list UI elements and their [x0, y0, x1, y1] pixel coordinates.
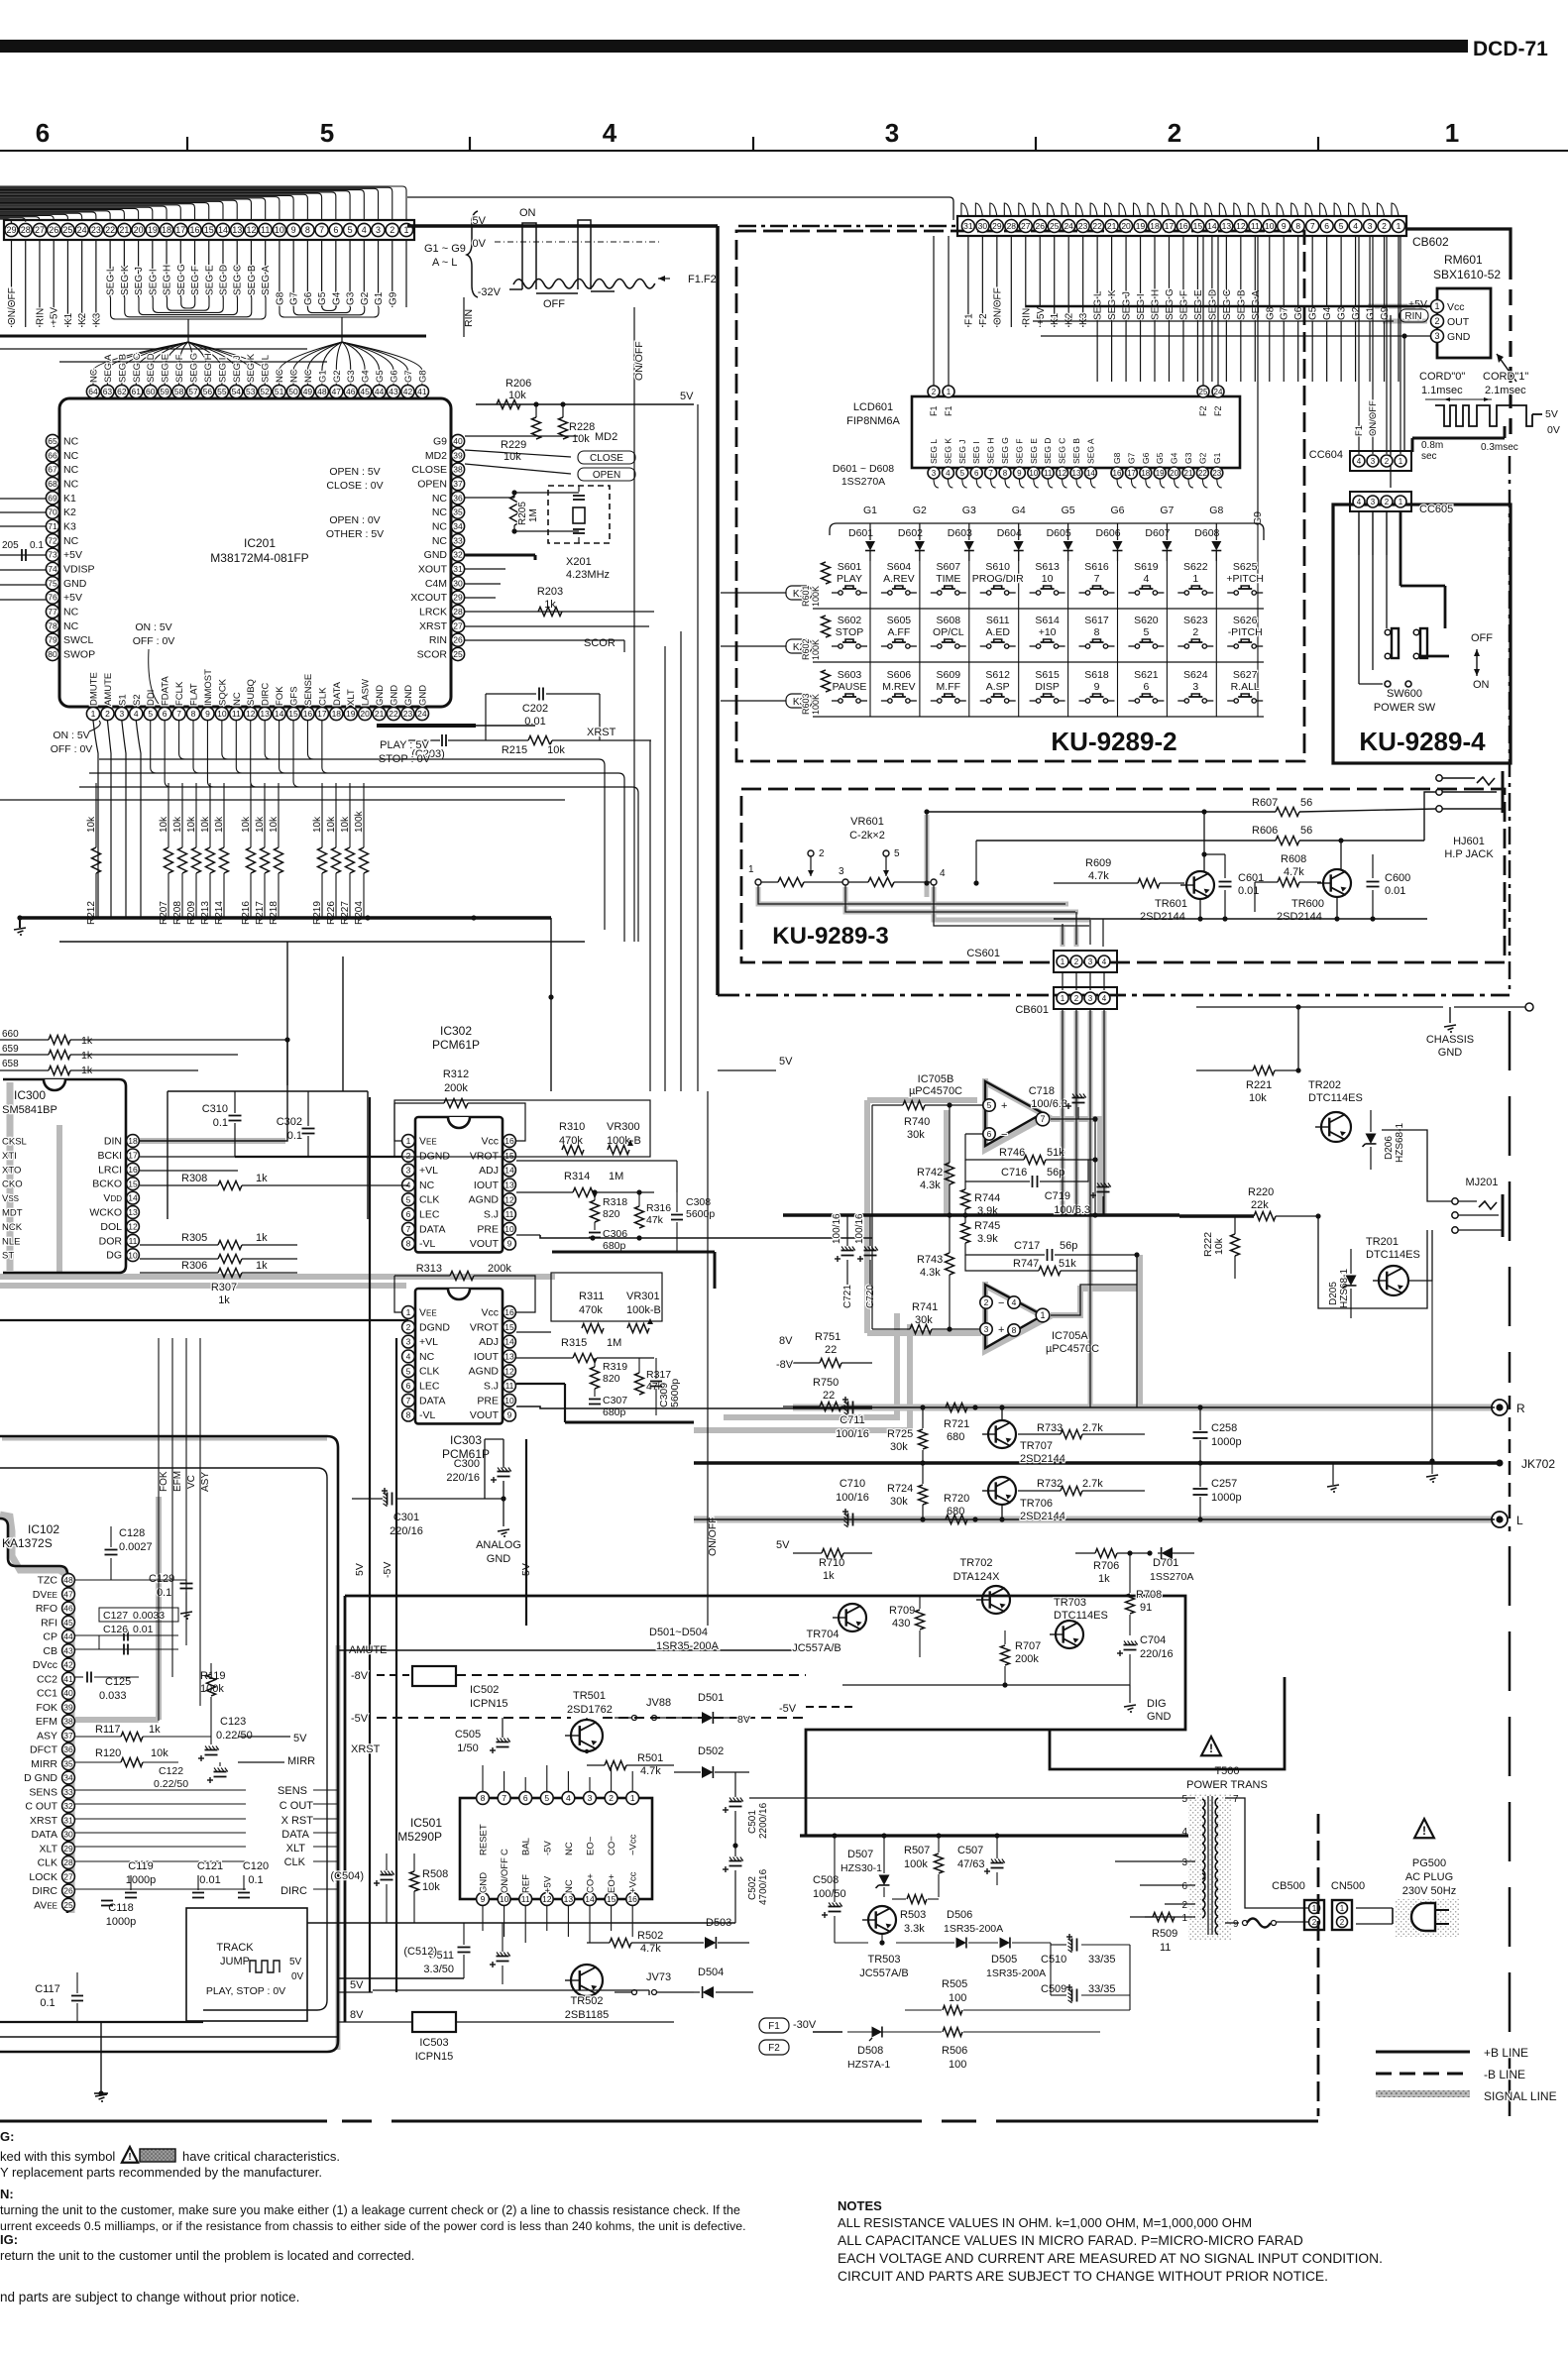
svg-text:12: 12 [504, 1366, 514, 1376]
svg-text:DIN: DIN [104, 1136, 122, 1148]
svg-text:4: 4 [940, 868, 946, 879]
KU-9289-4 board name [1359, 727, 1486, 756]
svg-text:G1: G1 [374, 291, 385, 305]
svg-text:47/63: 47/63 [957, 1858, 985, 1870]
svg-text:TR201: TR201 [1366, 1236, 1399, 1248]
svg-text:1: 1 [748, 864, 754, 875]
svg-text:5600p: 5600p [686, 1208, 715, 1220]
svg-text:SEG I: SEG I [971, 441, 981, 464]
svg-text:JV73: JV73 [646, 1971, 671, 1983]
svg-text:NC: NC [63, 535, 79, 547]
jumper JV88 [615, 1697, 694, 1721]
net RIN vertical [463, 297, 475, 337]
svg-text:48: 48 [317, 387, 327, 396]
jack JK702 R [1492, 1400, 1525, 1415]
svg-text:R751: R751 [815, 1331, 840, 1343]
svg-text:SEG B: SEG B [247, 265, 258, 295]
svg-text:R313: R313 [416, 1263, 442, 1275]
svg-text:1k: 1k [149, 1724, 161, 1736]
svg-text:5V: 5V [350, 1979, 364, 1991]
svg-text:C302: C302 [277, 1116, 302, 1128]
KU-9289-2 board name [1051, 727, 1176, 756]
svg-text:10k: 10k [1213, 1237, 1225, 1255]
svg-text:1k: 1k [218, 1294, 230, 1306]
svg-text:R212: R212 [86, 901, 97, 925]
wire ON/OFF mid [707, 1091, 719, 1626]
capacitor C504 [330, 1854, 393, 1923]
svg-text:R316: R316 [646, 1202, 671, 1214]
jack JK702 label [1497, 1457, 1556, 1471]
matrix top frame [830, 523, 1264, 540]
svg-text:SBX1610-52: SBX1610-52 [1433, 268, 1501, 281]
svg-text:65: 65 [48, 436, 57, 446]
svg-text:2: 2 [406, 1151, 411, 1161]
svg-text:PAUSE: PAUSE [833, 681, 867, 693]
transistor TR503 [859, 1906, 909, 1979]
svg-text:MDT: MDT [2, 1208, 23, 1219]
net -5V label [351, 1713, 806, 1725]
svg-text:R740: R740 [904, 1116, 930, 1128]
net F1 tag [759, 2018, 789, 2033]
svg-text:41: 41 [417, 387, 427, 396]
svg-text:47: 47 [332, 387, 342, 396]
svg-text:R217: R217 [255, 901, 266, 925]
svg-text:KU-9289-4: KU-9289-4 [1359, 727, 1486, 756]
svg-text:15: 15 [1193, 221, 1203, 231]
KU-9289-2 top dash-dot border [738, 225, 959, 228]
svg-text:VOUT: VOUT [470, 1238, 500, 1250]
resistor R507 [904, 1836, 944, 1897]
svg-text:XLT: XLT [346, 689, 357, 706]
transistor TR702 [953, 1557, 1010, 1614]
svg-text:3.3/50: 3.3/50 [423, 1964, 454, 1975]
svg-text:5: 5 [406, 1366, 411, 1376]
svg-text:!: ! [128, 2152, 131, 2163]
svg-text:38: 38 [453, 465, 463, 475]
svg-text:+5V: +5V [1408, 298, 1427, 310]
svg-text:SEG C: SEG C [233, 265, 244, 295]
svg-text:3: 3 [1368, 221, 1373, 231]
svg-text:G3: G3 [346, 370, 357, 383]
ground JK702 [1327, 1463, 1339, 1493]
svg-text:2: 2 [1181, 1900, 1187, 1911]
svg-text:G1 ~ G9: G1 ~ G9 [424, 243, 466, 255]
svg-text:NC: NC [419, 1180, 435, 1191]
svg-text:D507: D507 [847, 1849, 873, 1860]
svg-text:IOUT: IOUT [474, 1180, 500, 1191]
svg-text:18: 18 [332, 709, 342, 719]
svg-text:47k: 47k [646, 1214, 664, 1226]
svg-text:G3: G3 [1183, 452, 1193, 464]
svg-text:ked with this symbol: ked with this symbol [0, 2149, 115, 2164]
svg-text:13: 13 [1072, 469, 1081, 478]
svg-text:42: 42 [403, 387, 413, 396]
svg-text:6: 6 [163, 709, 168, 719]
DAC IC302 PCM61P [402, 1024, 516, 1252]
svg-text:DIRC: DIRC [280, 1885, 307, 1897]
resistor R751 [783, 1331, 872, 1368]
svg-text:1k: 1k [256, 1232, 268, 1244]
svg-text:54: 54 [232, 387, 242, 396]
svg-text:ON/OFF: ON/OFF [707, 1517, 719, 1556]
svg-text:69: 69 [48, 493, 57, 503]
jack JK702 L [1492, 1512, 1523, 1527]
svg-text:8V: 8V [737, 1714, 750, 1726]
capacitor C119 [125, 1860, 156, 1898]
svg-text:FIP8NM6A: FIP8NM6A [846, 415, 900, 427]
svg-text:220/16: 220/16 [446, 1472, 480, 1484]
svg-text:MD2: MD2 [595, 431, 617, 443]
signal highlight IC300 [0, 1082, 406, 1286]
wire power mid horizontals [307, 1923, 735, 1978]
svg-text:ICPN15: ICPN15 [470, 1698, 508, 1710]
svg-text:4: 4 [406, 1351, 411, 1361]
svg-text:+10: +10 [1039, 626, 1057, 638]
resistor R659 [0, 1044, 238, 1062]
resistor R119 [200, 1663, 225, 1715]
svg-text:12: 12 [246, 225, 256, 235]
svg-text:+PITCH: +PITCH [1226, 573, 1264, 585]
svg-text:R315: R315 [561, 1337, 587, 1349]
svg-text:S601: S601 [838, 561, 862, 573]
svg-text:DGND: DGND [419, 1150, 450, 1162]
resistor R315 [516, 1337, 654, 1363]
svg-text:D502: D502 [698, 1745, 724, 1757]
right border dash-dot vertical [1509, 456, 1512, 2116]
svg-text:1: 1 [1040, 1310, 1045, 1320]
svg-text:G4: G4 [331, 291, 342, 305]
svg-text:G:: G: [0, 2129, 14, 2144]
svg-text:LCD601: LCD601 [853, 401, 893, 413]
svg-text:XOUT: XOUT [418, 563, 448, 575]
svg-text:VR300: VR300 [607, 1121, 640, 1133]
svg-text:16: 16 [504, 1307, 514, 1317]
svg-text:15: 15 [504, 1322, 514, 1332]
svg-text:FOK: FOK [36, 1702, 57, 1714]
svg-text:37: 37 [63, 1731, 73, 1741]
svg-text:23: 23 [91, 225, 101, 235]
svg-text:1SS270A: 1SS270A [1150, 1571, 1193, 1583]
svg-text:R117: R117 [95, 1724, 120, 1736]
svg-text:1000p: 1000p [106, 1916, 137, 1928]
svg-text:NC: NC [63, 478, 79, 490]
svg-text:74: 74 [48, 564, 57, 574]
svg-text:17: 17 [128, 1150, 138, 1160]
svg-text:C128: C128 [119, 1527, 145, 1539]
capacitor C308 [671, 1192, 715, 1251]
capacitor C704 [1117, 1634, 1174, 1685]
svg-text:OPEN: OPEN [417, 478, 447, 490]
svg-text:R310: R310 [559, 1121, 585, 1133]
svg-text:SEG F: SEG F [174, 354, 185, 383]
svg-text:R745: R745 [974, 1220, 1000, 1232]
svg-text:CLK: CLK [317, 687, 328, 706]
resistor R724 [887, 1463, 928, 1522]
svg-text:33/35: 33/35 [1088, 1983, 1116, 1995]
capacitor C202 [486, 688, 600, 741]
svg-text:79: 79 [48, 635, 57, 645]
IC201 top pins 64-41 [86, 353, 428, 398]
svg-text:10k: 10k [572, 433, 590, 445]
ground CHASSIS GND [1426, 1007, 1474, 1059]
svg-text:PLAY, STOP : 0V: PLAY, STOP : 0V [206, 1985, 285, 1997]
svg-text:4.7k: 4.7k [640, 1765, 661, 1777]
svg-text:32: 32 [453, 550, 463, 560]
transistor TR202 [1308, 1079, 1363, 1142]
svg-text:NC: NC [63, 450, 79, 462]
svg-text:N:: N: [0, 2187, 14, 2201]
svg-text:8: 8 [305, 225, 310, 235]
svg-text:2: 2 [609, 1793, 614, 1803]
capacitor C121 [192, 1860, 223, 1898]
svg-text:D205: D205 [1328, 1282, 1339, 1305]
svg-text:AGND: AGND [469, 1194, 500, 1206]
capacitor C125 [75, 1672, 139, 1703]
wire TR collectors bus [1054, 918, 1427, 920]
wire servo inner frame [0, 1468, 327, 2010]
svg-text:SEG J: SEG J [134, 267, 145, 295]
net 5V bottom label [338, 1979, 373, 1992]
svg-text:34: 34 [453, 521, 463, 531]
op-amp ... IC201 body [59, 398, 451, 707]
capacitor C601 [1201, 851, 1264, 921]
svg-text:SUBQ: SUBQ [246, 679, 257, 706]
wire mute bus [842, 1682, 1130, 1687]
svg-text:+B LINE: +B LINE [1484, 2046, 1528, 2060]
svg-text:5: 5 [320, 118, 334, 148]
svg-text:6: 6 [974, 469, 979, 478]
DAC IC303 PCM61P [402, 1289, 516, 1461]
diode D506 [896, 1909, 1003, 1949]
svg-text:SEG E: SEG E [161, 354, 171, 383]
capacitor C301 [352, 1488, 506, 1537]
CB201 pin fan-out wires and net labels [7, 240, 406, 327]
svg-text:9: 9 [1282, 221, 1287, 231]
svg-text:4: 4 [134, 709, 139, 719]
svg-text:S612: S612 [985, 669, 1010, 681]
svg-text:C-2k×2: C-2k×2 [849, 830, 885, 842]
svg-text:C119: C119 [128, 1860, 153, 1872]
svg-text:SEG L: SEG L [929, 439, 939, 464]
capacitor C716 [965, 1160, 1088, 1187]
svg-text:KA1372S: KA1372S [2, 1536, 53, 1550]
svg-text:5V: 5V [1545, 408, 1558, 420]
net SCOR [465, 637, 624, 652]
svg-text:NC: NC [63, 464, 79, 476]
svg-text:R708: R708 [1136, 1589, 1162, 1601]
wire R channel line [793, 1406, 1495, 1408]
svg-text:R319: R319 [603, 1361, 627, 1373]
svg-text:33: 33 [63, 1787, 73, 1797]
svg-text:RIN: RIN [429, 634, 447, 646]
svg-text:2.1msec: 2.1msec [1485, 385, 1526, 396]
svg-text:VSS: VSS [2, 1193, 19, 1204]
net AMUTE label [338, 1644, 806, 1656]
svg-text:CB500: CB500 [1272, 1880, 1305, 1892]
svg-text:S618: S618 [1084, 669, 1109, 681]
svg-text:7: 7 [406, 1396, 411, 1405]
net 5V -5V labels DAC [354, 1562, 532, 1578]
svg-text:S626: S626 [1233, 615, 1258, 626]
svg-text:S2: S2 [132, 694, 143, 706]
svg-text:G8: G8 [1265, 306, 1276, 320]
svg-text:JK702: JK702 [1521, 1457, 1555, 1471]
svg-text:27: 27 [1021, 221, 1031, 231]
svg-text:7: 7 [988, 469, 993, 478]
svg-text:1: 1 [1397, 221, 1401, 231]
svg-text:F2: F2 [1198, 405, 1208, 416]
svg-text:1k: 1k [256, 1173, 268, 1184]
svg-text:1k: 1k [256, 1260, 268, 1272]
svg-text:G8: G8 [1112, 452, 1122, 464]
wire 5V line bottom [373, 1990, 649, 1995]
svg-text:F2: F2 [978, 313, 989, 325]
svg-text:5V: 5V [293, 1733, 307, 1744]
svg-text:5V: 5V [289, 1957, 302, 1967]
svg-text:SENS: SENS [278, 1785, 307, 1797]
svg-text:4700/16: 4700/16 [758, 1868, 769, 1905]
svg-text:3.3k: 3.3k [904, 1923, 925, 1935]
svg-text:OTHER : 5V: OTHER : 5V [326, 528, 384, 540]
svg-text:A ~ L: A ~ L [432, 257, 457, 269]
svg-text:29: 29 [63, 1844, 73, 1854]
svg-text:S611: S611 [986, 615, 1010, 626]
wire IOUT303 trace [516, 1331, 551, 1333]
svg-text:ST: ST [2, 1251, 14, 1262]
svg-text:CORD"1": CORD"1" [1483, 371, 1528, 383]
svg-text:C: C [500, 1849, 510, 1855]
svg-text:Vcc: Vcc [1447, 301, 1465, 313]
svg-text:S620: S620 [1134, 615, 1159, 626]
svg-text:ON/OFF: ON/OFF [992, 287, 1003, 325]
svg-text:30k: 30k [915, 1314, 933, 1326]
svg-text:-8V: -8V [776, 1359, 794, 1371]
svg-text:sec: sec [1421, 451, 1437, 462]
svg-text:DCD-71: DCD-71 [1473, 38, 1548, 60]
svg-text:0.01: 0.01 [199, 1874, 220, 1886]
svg-text:TR501: TR501 [573, 1690, 606, 1702]
svg-text:26: 26 [453, 635, 463, 645]
wire 5V rail right DAC [485, 1439, 526, 1626]
svg-text:10k: 10k [508, 390, 526, 401]
svg-text:SEG D: SEG D [146, 353, 157, 383]
svg-text:GND: GND [424, 549, 448, 561]
svg-text:4: 4 [603, 118, 617, 148]
svg-text:55: 55 [217, 387, 227, 396]
svg-text:SEG E: SEG E [1029, 438, 1039, 464]
svg-text:G2: G2 [913, 505, 927, 516]
svg-text:53: 53 [246, 387, 256, 396]
wire DAC top rail [168, 1091, 368, 1219]
svg-text:680: 680 [947, 1431, 964, 1443]
svg-text:XLT: XLT [40, 1843, 58, 1854]
KU-9289-3 dashed frame [741, 789, 1505, 962]
svg-text:1k: 1k [81, 1050, 93, 1062]
svg-text:17: 17 [1165, 221, 1175, 231]
connector CS601 [966, 912, 1117, 972]
wire roof line to right strip [407, 197, 953, 220]
svg-text:4: 4 [362, 225, 367, 235]
svg-text:14: 14 [128, 1193, 138, 1203]
svg-text:2.7k: 2.7k [1082, 1478, 1103, 1490]
svg-text:NC: NC [63, 606, 79, 618]
svg-text:D506: D506 [947, 1909, 972, 1921]
resistor R706 [1075, 1549, 1153, 1586]
svg-text:23: 23 [403, 709, 413, 719]
svg-text:10k: 10k [86, 816, 97, 833]
resistor R306 [140, 1255, 297, 1273]
svg-text:1: 1 [406, 1136, 411, 1146]
svg-text:CHASSIS: CHASSIS [1426, 1034, 1474, 1046]
svg-text:D601 ~ D608: D601 ~ D608 [833, 463, 894, 475]
svg-text:R505: R505 [942, 1978, 967, 1990]
IC201 bottom pins 1-24 [86, 669, 428, 721]
ground DIG GND [1124, 1685, 1172, 1723]
svg-text:CS601: CS601 [966, 948, 1000, 959]
svg-text:C600: C600 [1385, 872, 1410, 884]
svg-text:Vcc: Vcc [481, 1136, 499, 1148]
switch position labels [1471, 632, 1493, 691]
resistor R203 [537, 586, 563, 617]
svg-text:7: 7 [1233, 1794, 1239, 1805]
svg-text:PROG/DIR: PROG/DIR [972, 573, 1024, 585]
svg-text:4.23MHz: 4.23MHz [566, 569, 610, 581]
jack HJ601 [1436, 771, 1503, 860]
svg-text:13: 13 [504, 1180, 514, 1189]
svg-text:have critical characteristics.: have critical characteristics. [182, 2149, 340, 2164]
svg-text:10: 10 [1029, 469, 1038, 478]
svg-text:6: 6 [36, 118, 50, 148]
svg-text:SEG H: SEG H [986, 438, 996, 464]
svg-text:CIRCUIT AND PARTS ARE SUBJECT: CIRCUIT AND PARTS ARE SUBJECT TO CHANGE … [838, 2269, 1328, 2284]
svg-text:SEG B: SEG B [1071, 438, 1081, 464]
wires C510 C509 frame [1051, 1943, 1130, 2010]
wire DIN trace [140, 1037, 290, 1141]
svg-text:SEG I: SEG I [148, 269, 159, 295]
svg-text:PG500: PG500 [1412, 1857, 1446, 1869]
svg-text:NC: NC [564, 1842, 575, 1855]
capacitor C505 [455, 1718, 510, 1754]
svg-text:1: 1 [1192, 573, 1198, 585]
svg-text:2: 2 [1385, 498, 1390, 506]
svg-text:CLOSE: CLOSE [411, 464, 447, 476]
IC501 pins [477, 1765, 639, 1943]
svg-text:52: 52 [260, 387, 270, 396]
svg-text:F2: F2 [768, 2043, 780, 2054]
svg-text:IC303: IC303 [450, 1433, 482, 1447]
svg-text:SEG C: SEG C [1222, 289, 1233, 320]
svg-text:14: 14 [504, 1337, 514, 1347]
svg-text:M.REV: M.REV [882, 681, 915, 693]
svg-text:2: 2 [105, 709, 110, 719]
switch SW600 [1359, 511, 1449, 714]
svg-text:C721: C721 [842, 1285, 853, 1308]
svg-text:VOUT: VOUT [470, 1409, 500, 1421]
svg-text:14: 14 [218, 225, 228, 235]
svg-text:IC501: IC501 [410, 1816, 442, 1830]
svg-text:SEG E: SEG E [204, 265, 215, 295]
svg-text:CLK: CLK [284, 1856, 306, 1868]
svg-text:25: 25 [1199, 388, 1208, 396]
svg-text:0.1: 0.1 [40, 1997, 55, 2009]
svg-text:SEG H: SEG H [203, 353, 214, 383]
svg-text:21: 21 [119, 225, 129, 235]
svg-text:S621: S621 [1134, 669, 1159, 681]
svg-text:1: 1 [1340, 1904, 1345, 1913]
svg-text:DTC114ES: DTC114ES [1308, 1092, 1363, 1104]
svg-text:S624: S624 [1183, 669, 1208, 681]
svg-text:ANALOG: ANALOG [476, 1539, 521, 1551]
